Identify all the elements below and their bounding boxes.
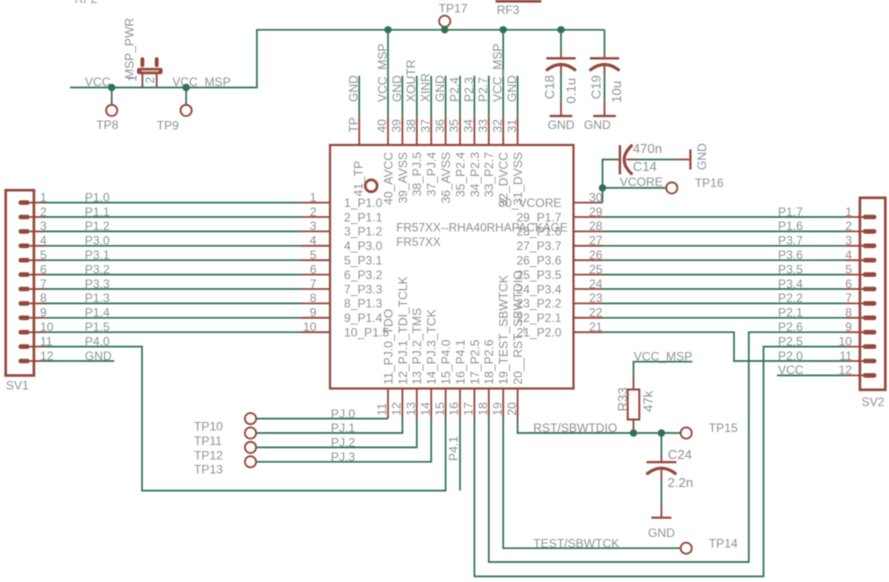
wire C14 to GND bbox=[637, 159, 677, 161]
SV1 pin 1 lead bbox=[30, 202, 45, 204]
svg-text:5_P3.1: 5_P3.1 bbox=[344, 254, 383, 268]
wire VCC_MSP riser to pin 32 bbox=[502, 30, 504, 117]
svg-text:VCORE: VCORE bbox=[620, 175, 663, 189]
ground symbol right of C14 bbox=[689, 149, 691, 169]
IC pin 25 stub bbox=[574, 274, 603, 276]
IC pin 28 stub bbox=[574, 230, 603, 232]
SV2 pad 2 bbox=[863, 229, 877, 234]
IC bottom pin 19 stub bbox=[502, 389, 504, 419]
wire C19 top lead bbox=[604, 30, 606, 53]
IC pin 29 stub bbox=[574, 216, 603, 218]
svg-text:40_AVCC: 40_AVCC bbox=[381, 152, 395, 205]
IC bottom pin 17 stub bbox=[473, 389, 475, 419]
svg-text:18: 18 bbox=[476, 402, 490, 416]
svg-text:26_P3.6: 26_P3.6 bbox=[516, 254, 561, 268]
SV2 pin 2 lead bbox=[846, 230, 865, 232]
SV1 pad 12 bbox=[19, 359, 30, 364]
IC top pin 38 stub bbox=[416, 117, 418, 145]
wire stub net P2.3 at pin 34 bbox=[473, 76, 475, 117]
IC pin 3 stub bbox=[301, 230, 330, 232]
svg-text:13: 13 bbox=[404, 402, 418, 416]
IC bottom pin 16 stub bbox=[459, 389, 461, 419]
svg-text:2: 2 bbox=[845, 219, 852, 233]
svg-text:14: 14 bbox=[418, 402, 432, 416]
wire P3.1 SV1 to IC bbox=[45, 259, 302, 261]
svg-text:8: 8 bbox=[310, 291, 317, 305]
IC top pin 37 stub bbox=[430, 117, 432, 145]
wire PJ.2 TP12 to IC pin 13 bbox=[256, 419, 417, 448]
svg-text:34_P2.3: 34_P2.3 bbox=[468, 152, 482, 197]
wire stub net XOUTR at pin 38 bbox=[416, 76, 418, 117]
SV1 pin 2 lead bbox=[30, 216, 45, 218]
svg-text:9_P1.4: 9_P1.4 bbox=[344, 311, 383, 325]
svg-text:13_PJ.2_TMS: 13_PJ.2_TMS bbox=[410, 308, 424, 385]
svg-text:15: 15 bbox=[433, 402, 447, 416]
testpoint TP10 circle bbox=[245, 413, 256, 424]
svg-text:RF3: RF3 bbox=[497, 3, 520, 17]
junction TP17 bbox=[441, 26, 448, 33]
wire P1.7 IC to SV2 bbox=[603, 216, 846, 218]
wire P2.6 IC pin 18 to SV2 pin 9 bbox=[489, 332, 846, 562]
svg-text:VCC_MSP: VCC_MSP bbox=[491, 44, 505, 102]
SV2 pin 6 lead bbox=[846, 288, 865, 290]
svg-text:20: 20 bbox=[505, 402, 519, 416]
svg-text:16: 16 bbox=[447, 402, 461, 416]
svg-text:TP16: TP16 bbox=[695, 176, 724, 190]
wire TP17 stub bbox=[444, 27, 446, 30]
SV2 pin 3 lead bbox=[846, 245, 865, 247]
resistor R33 top lead bbox=[633, 375, 635, 389]
wire VCC_MSP riser to pin 40 bbox=[387, 30, 389, 117]
IC bottom pin 20 stub bbox=[517, 389, 519, 419]
junction C24 on RST net bbox=[658, 429, 665, 436]
SV1 pin 5 lead bbox=[30, 259, 45, 261]
svg-text:TP9: TP9 bbox=[157, 118, 179, 132]
IC pin 7 stub bbox=[301, 288, 330, 290]
svg-text:15_P4.0: 15_P4.0 bbox=[439, 339, 453, 384]
svg-text:37: 37 bbox=[418, 119, 432, 133]
SV2 pad 7 bbox=[863, 301, 877, 306]
svg-text:XOUTR: XOUTR bbox=[404, 59, 418, 102]
SV2 pad 12 bbox=[863, 373, 877, 378]
wire P4.0 from SV1 pin 11 to IC pin 15 bbox=[45, 347, 446, 491]
SV1 pad 2 bbox=[19, 215, 30, 220]
wire stub net P2.4 at pin 35 bbox=[459, 76, 461, 117]
IC bottom pin 12 stub bbox=[401, 389, 403, 419]
IC pin 27 stub bbox=[574, 245, 603, 247]
svg-text:GND: GND bbox=[505, 75, 519, 102]
testpoint TP15 circle bbox=[681, 427, 692, 438]
IC top pin 32 stub bbox=[502, 117, 504, 145]
svg-text:11_PJ.0_TDO: 11_PJ.0_TDO bbox=[381, 309, 395, 385]
SV2 pin 9 lead bbox=[846, 331, 865, 333]
svg-text:5: 5 bbox=[845, 262, 852, 276]
SV1 pin 8 lead bbox=[30, 302, 45, 304]
ground pin under C19 bbox=[604, 102, 606, 115]
svg-text:3_P1.2: 3_P1.2 bbox=[344, 225, 383, 239]
IC bottom pin 11 stub bbox=[387, 389, 389, 419]
SV1 pin 6 lead bbox=[30, 274, 45, 276]
SV1 pad 6 bbox=[19, 272, 30, 277]
wire P3.5 IC to SV2 bbox=[603, 274, 846, 276]
wire P3.3 SV1 to IC bbox=[45, 288, 302, 290]
wire VCORE to TP16 bbox=[603, 187, 667, 189]
svg-text:TP13: TP13 bbox=[194, 463, 223, 477]
wire TP8 drop bbox=[111, 88, 113, 105]
svg-text:33_P2.7: 33_P2.7 bbox=[482, 152, 496, 197]
svg-text:VCC_MSP: VCC_MSP bbox=[172, 75, 230, 89]
svg-text:GND: GND bbox=[433, 75, 447, 102]
SV1 pin 11 lead bbox=[30, 346, 45, 348]
svg-text:41_TP: 41_TP bbox=[351, 161, 365, 197]
svg-text:1: 1 bbox=[845, 205, 852, 219]
svg-text:R33: R33 bbox=[615, 387, 630, 411]
svg-text:1: 1 bbox=[310, 190, 317, 204]
svg-text:4: 4 bbox=[845, 248, 852, 262]
SV2 pin 5 lead bbox=[846, 274, 865, 276]
svg-text:GND: GND bbox=[390, 75, 404, 102]
SV2 pin 12 lead bbox=[846, 374, 865, 376]
IC pin 21 stub bbox=[574, 331, 603, 333]
svg-text:5: 5 bbox=[310, 248, 317, 262]
IC pin 4 stub bbox=[301, 245, 330, 247]
IC pin 9 stub bbox=[301, 317, 330, 319]
wire P1.4 SV1 to IC bbox=[45, 317, 302, 319]
SV2 pad 4 bbox=[863, 258, 877, 263]
IC bottom pin 18 stub bbox=[488, 389, 490, 419]
IC pin 24 stub bbox=[574, 288, 603, 290]
wire P2.2 IC to SV2 bbox=[603, 302, 846, 304]
SV2 pad 5 bbox=[863, 272, 877, 277]
SV1 pad 3 bbox=[19, 229, 30, 234]
svg-text:39_AVSS: 39_AVSS bbox=[396, 152, 410, 204]
IC top pin 31 stub bbox=[517, 117, 519, 145]
svg-text:XINR: XINR bbox=[419, 73, 433, 102]
wire stub net GND at pin 36 bbox=[445, 76, 447, 117]
svg-text:33: 33 bbox=[476, 119, 490, 133]
svg-text:38_PJ.5: 38_PJ.5 bbox=[410, 152, 424, 197]
svg-text:28: 28 bbox=[589, 219, 603, 233]
wire P2.5 IC pin 17 to SV2 pin 10 bbox=[474, 347, 845, 577]
wire RST/SBWTDIO from IC pin 20 to TP15 bbox=[518, 418, 681, 433]
IC top pin TP stub bbox=[358, 117, 360, 145]
SV1 pad 4 bbox=[19, 244, 30, 249]
svg-text:14_PJ.3_TCK: 14_PJ.3_TCK bbox=[425, 309, 439, 384]
wire P3.4 IC to SV2 bbox=[603, 288, 846, 290]
svg-text:9: 9 bbox=[310, 306, 317, 320]
svg-text:28_P1.6: 28_P1.6 bbox=[516, 225, 561, 239]
component RF3 bottom edge (cut off) bbox=[496, 0, 542, 3]
IC bottom pin 14 stub bbox=[430, 389, 432, 419]
wire TP9 drop bbox=[185, 88, 187, 105]
svg-text:19_TEST_SBWTCK: 19_TEST_SBWTCK bbox=[497, 275, 511, 385]
SV2 pin 11 lead bbox=[846, 360, 865, 362]
SV2 pad 8 bbox=[863, 316, 877, 321]
SV2 pad 3 bbox=[863, 244, 877, 249]
wire stub net GND at pin 31 bbox=[517, 76, 519, 117]
wire C18 top lead bbox=[560, 30, 562, 53]
svg-text:RF2: RF2 bbox=[75, 0, 98, 6]
svg-text:2: 2 bbox=[143, 77, 157, 84]
svg-text:GND: GND bbox=[347, 75, 361, 102]
jumper MSP_PWR pads bbox=[137, 57, 163, 74]
wire stub net GND at pin TP bbox=[358, 76, 360, 117]
svg-text:40: 40 bbox=[375, 119, 389, 133]
svg-text:4: 4 bbox=[310, 234, 317, 248]
junction pin40 riser bbox=[384, 26, 391, 33]
svg-text:VCC: VCC bbox=[85, 75, 111, 89]
IC pin 30 stub bbox=[574, 202, 603, 204]
svg-text:36_AVSS: 36_AVSS bbox=[439, 152, 453, 204]
svg-text:SV1: SV1 bbox=[6, 379, 29, 393]
op IC FR57XX body bbox=[330, 145, 574, 389]
svg-text:1_P1.0: 1_P1.0 bbox=[344, 196, 383, 210]
svg-text:C18: C18 bbox=[542, 75, 557, 99]
svg-text:6: 6 bbox=[310, 262, 317, 276]
svg-text:32: 32 bbox=[490, 119, 504, 133]
svg-text:2.2n: 2.2n bbox=[668, 475, 694, 490]
wire stub net P2.7 at pin 33 bbox=[488, 76, 490, 117]
SV1 pin 12 lead bbox=[30, 360, 45, 362]
svg-text:31_DVSS: 31_DVSS bbox=[511, 152, 525, 205]
svg-text:37_PJ.4: 37_PJ.4 bbox=[425, 152, 439, 197]
svg-text:GND: GND bbox=[695, 143, 709, 170]
capacitor C19 symbol bbox=[590, 53, 619, 76]
svg-text:TP10: TP10 bbox=[194, 420, 223, 434]
svg-text:8_P1.3: 8_P1.3 bbox=[344, 297, 383, 311]
SV1 pin 10 lead bbox=[30, 331, 45, 333]
svg-text:TP8: TP8 bbox=[96, 118, 118, 132]
IC pin 8 stub bbox=[301, 302, 330, 304]
wire P3.2 SV1 to IC bbox=[45, 274, 302, 276]
ground pin right of C14 bbox=[676, 159, 689, 161]
SV1 pad 11 bbox=[19, 344, 30, 349]
SV2 pin 4 lead bbox=[846, 259, 865, 261]
svg-text:47k: 47k bbox=[640, 390, 655, 412]
wire VCC / VCC_MSP horizontal+riser to top rail bbox=[70, 30, 605, 88]
svg-text:12_PJ.1_TDI_TCLK: 12_PJ.1_TDI_TCLK bbox=[396, 276, 410, 384]
IC top pin 36 stub bbox=[445, 117, 447, 145]
svg-text:39: 39 bbox=[390, 119, 404, 133]
testpoint TP13 circle bbox=[245, 456, 256, 467]
IC top pin 40 stub bbox=[387, 117, 389, 145]
svg-text:11: 11 bbox=[375, 403, 389, 416]
svg-text:TP: TP bbox=[346, 117, 360, 132]
junction C18 tap bbox=[557, 26, 564, 33]
IC pin 23 stub bbox=[574, 302, 603, 304]
IC bottom pin 13 stub bbox=[416, 389, 418, 419]
svg-text:6_P3.2: 6_P3.2 bbox=[344, 268, 383, 282]
testpoint TP16 circle bbox=[666, 182, 677, 193]
svg-text:SV2: SV2 bbox=[862, 395, 885, 409]
svg-text:PJ.0: PJ.0 bbox=[331, 407, 355, 421]
svg-text:2: 2 bbox=[310, 205, 317, 219]
testpoint TP14 circle bbox=[681, 543, 692, 554]
wire R33 bottom lead bbox=[633, 420, 635, 434]
svg-text:VCC_MSP: VCC_MSP bbox=[375, 44, 389, 102]
connector SV1 body bbox=[6, 190, 34, 375]
wire P1.5 SV1 to IC bbox=[45, 331, 302, 333]
IC top pin 33 stub bbox=[488, 117, 490, 145]
svg-text:C14: C14 bbox=[633, 159, 657, 174]
svg-text:P2.4: P2.4 bbox=[447, 77, 461, 102]
svg-text:RST/SBWTDIO: RST/SBWTDIO bbox=[533, 421, 617, 435]
svg-text:21: 21 bbox=[589, 320, 603, 334]
svg-text:8: 8 bbox=[845, 306, 852, 320]
svg-text:3: 3 bbox=[845, 234, 852, 248]
svg-text:7: 7 bbox=[310, 277, 317, 291]
svg-text:TEST/SBWTCK: TEST/SBWTCK bbox=[533, 536, 619, 550]
wire GND stub at SV1 pin 12 bbox=[45, 360, 115, 362]
capacitor C18 symbol bbox=[546, 53, 575, 76]
IC top pin 34 stub bbox=[473, 117, 475, 145]
svg-text:35: 35 bbox=[447, 119, 461, 133]
SV1 pin 3 lead bbox=[30, 230, 45, 232]
svg-text:GND: GND bbox=[584, 118, 611, 132]
ground symbol under C18 bbox=[550, 115, 573, 117]
svg-text:C24: C24 bbox=[668, 447, 692, 462]
wire PJ.1 TP11 to IC pin 12 bbox=[256, 419, 402, 434]
wire stub net GND at pin 39 bbox=[401, 76, 403, 117]
svg-text:TP12: TP12 bbox=[194, 448, 223, 462]
SV1 pad 9 bbox=[19, 316, 30, 321]
IC bottom pin 15 stub bbox=[445, 389, 447, 419]
svg-text:32_DVCC: 32_DVCC bbox=[497, 152, 511, 207]
svg-text:GND: GND bbox=[648, 526, 675, 540]
svg-text:20__RST_SBWTDIO: 20__RST_SBWTDIO bbox=[511, 270, 525, 384]
jumper MSP_PWR bar slot bbox=[142, 70, 158, 72]
testpoint TP8 circle bbox=[106, 105, 117, 116]
wire PJ.0 TP10 to IC pin 11 bbox=[256, 418, 388, 420]
svg-text:26: 26 bbox=[589, 248, 603, 262]
testpoint TP11 circle bbox=[245, 427, 256, 438]
svg-text:24: 24 bbox=[589, 277, 603, 291]
ground pin under C18 bbox=[560, 102, 562, 115]
SV2 pin 10 lead bbox=[846, 346, 865, 348]
svg-text:FR57XX: FR57XX bbox=[396, 235, 441, 249]
SV2 pad 11 bbox=[863, 359, 877, 364]
wire C18 bottom lead bbox=[560, 76, 562, 102]
wire P3.0 SV1 to IC bbox=[45, 245, 302, 247]
svg-text:36: 36 bbox=[433, 119, 447, 133]
svg-text:10u: 10u bbox=[609, 81, 624, 103]
wire VCC_MSP stub above R33 bbox=[634, 362, 693, 375]
svg-text:9: 9 bbox=[845, 320, 852, 334]
wire TEST/SBWTCK from IC pin 19 to TP14 bbox=[503, 418, 680, 548]
svg-text:MSP_PWR: MSP_PWR bbox=[123, 18, 137, 79]
svg-text:C19: C19 bbox=[589, 75, 604, 99]
SV1 pad 10 bbox=[19, 330, 30, 335]
svg-text:P2.3: P2.3 bbox=[462, 77, 476, 102]
SV1 pad 8 bbox=[19, 301, 30, 306]
IC top pin 39 stub bbox=[401, 117, 403, 145]
SV2 pin 8 lead bbox=[846, 317, 865, 319]
svg-text:GND: GND bbox=[548, 118, 575, 132]
wire VCORE from IC pin 30 bbox=[603, 160, 618, 203]
svg-text:29: 29 bbox=[589, 205, 603, 219]
SV1 pad 1 bbox=[19, 200, 30, 205]
SV2 pad 10 bbox=[863, 344, 877, 349]
capacitor C14 symbol bbox=[618, 145, 637, 174]
IC pin 41 thermal-pad circle bbox=[365, 180, 377, 192]
SV2 pad 1 bbox=[863, 215, 877, 220]
wire P1.3 SV1 to IC bbox=[45, 302, 302, 304]
ground symbol under C24 bbox=[651, 517, 671, 519]
svg-text:16_P4.1: 16_P4.1 bbox=[453, 339, 467, 384]
wire P1.1 SV1 to IC bbox=[45, 216, 302, 218]
svg-text:12: 12 bbox=[390, 402, 404, 416]
svg-text:0.1u: 0.1u bbox=[564, 78, 579, 104]
svg-text:TP15: TP15 bbox=[709, 421, 738, 435]
svg-text:23: 23 bbox=[589, 291, 603, 305]
svg-text:7_P3.3: 7_P3.3 bbox=[344, 282, 383, 296]
SV1 pad 5 bbox=[19, 258, 30, 263]
IC pin 5 stub bbox=[301, 259, 330, 261]
svg-text:17_P2.5: 17_P2.5 bbox=[468, 339, 482, 384]
IC pin 10 stub bbox=[301, 331, 330, 333]
wire P3.7 IC to SV2 bbox=[603, 245, 846, 247]
SV1 pin 4 lead bbox=[30, 245, 45, 247]
svg-text:29_P1.7: 29_P1.7 bbox=[516, 210, 561, 224]
junction pin32 riser bbox=[500, 26, 507, 33]
junction R33 on RST net bbox=[630, 429, 637, 436]
svg-text:2_P1.1: 2_P1.1 bbox=[344, 210, 383, 224]
svg-text:35_P2.4: 35_P2.4 bbox=[453, 152, 467, 197]
wire P2.1 IC to SV2 bbox=[603, 317, 846, 319]
testpoint TP17 circle bbox=[439, 16, 450, 27]
connector SV2 body bbox=[860, 198, 885, 390]
junction TP8 tap bbox=[108, 84, 115, 91]
SV1 pin 7 lead bbox=[30, 288, 45, 290]
wire C24 bottom lead bbox=[660, 481, 662, 503]
svg-text:1: 1 bbox=[125, 75, 139, 82]
svg-text:34: 34 bbox=[462, 119, 476, 133]
svg-text:22: 22 bbox=[589, 306, 603, 320]
IC top pin 35 stub bbox=[459, 117, 461, 145]
wire C19 bottom lead bbox=[604, 76, 606, 102]
junction TP9 tap bbox=[182, 84, 189, 91]
wire P1.0 SV1 to IC bbox=[45, 202, 302, 204]
svg-text:27_P3.7: 27_P3.7 bbox=[516, 239, 561, 253]
SV2 pad 9 bbox=[863, 330, 877, 335]
svg-text:18_P2.6: 18_P2.6 bbox=[482, 339, 496, 384]
svg-text:470n: 470n bbox=[633, 141, 662, 156]
ground symbol under C19 bbox=[593, 115, 616, 117]
testpoint TP9 circle bbox=[181, 105, 192, 116]
capacitor C24 symbol bbox=[647, 456, 677, 481]
SV2 pin 7 lead bbox=[846, 302, 865, 304]
wire stub net XINR at pin 37 bbox=[430, 76, 432, 117]
svg-text:6: 6 bbox=[845, 277, 852, 291]
SV2 pad 6 bbox=[863, 287, 877, 292]
svg-text:7: 7 bbox=[845, 291, 852, 305]
svg-text:30: 30 bbox=[589, 190, 603, 204]
svg-text:PJ.1: PJ.1 bbox=[331, 421, 355, 435]
resistor R33 body bbox=[628, 390, 640, 420]
junction VCORE tap bbox=[599, 184, 606, 191]
svg-text:3: 3 bbox=[310, 219, 317, 233]
svg-text:TP14: TP14 bbox=[709, 536, 738, 550]
svg-text:P2.7: P2.7 bbox=[476, 77, 490, 102]
svg-text:38: 38 bbox=[404, 119, 418, 133]
IC pin 2 stub bbox=[301, 216, 330, 218]
testpoint TP12 circle bbox=[245, 442, 256, 453]
svg-text:P4.1: P4.1 bbox=[447, 436, 461, 461]
IC pin 6 stub bbox=[301, 274, 330, 276]
svg-text:31: 31 bbox=[505, 119, 519, 133]
svg-text:TP11: TP11 bbox=[194, 434, 222, 448]
IC pin 22 stub bbox=[574, 317, 603, 319]
